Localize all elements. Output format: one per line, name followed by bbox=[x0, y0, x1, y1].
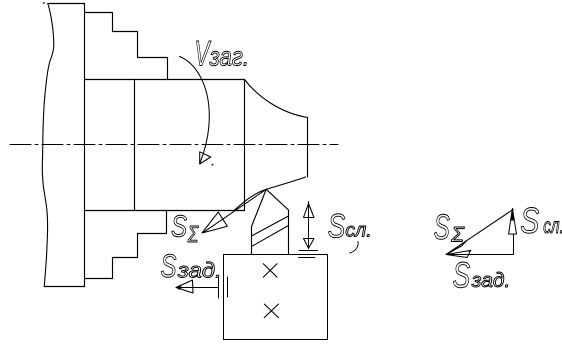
Szad arrowhead bbox=[176, 280, 193, 293]
Ssum arrow shaft bbox=[204, 189, 267, 232]
tool post X mark 2 bbox=[264, 304, 278, 318]
chuck break-line start dot bbox=[43, 2, 45, 4]
triangle Ssl arrowhead filled tip bbox=[511, 209, 515, 221]
vector triangle hypotenuse (Ssum vector) bbox=[446, 209, 513, 254]
workpiece shoulder right edge bbox=[244, 80, 246, 211]
cutting tool body bbox=[252, 189, 289, 254]
svg-text:Σ: Σ bbox=[187, 221, 199, 247]
Szad wall line bbox=[218, 276, 220, 298]
rotation arc Vzag bbox=[180, 57, 210, 164]
Szad arrow shaft bbox=[177, 287, 219, 289]
workpiece top edge bbox=[85, 79, 245, 81]
workpiece bottom edge bbox=[85, 210, 245, 212]
Ssl arrowhead down bbox=[304, 239, 315, 249]
Ssl support line lower bbox=[299, 257, 316, 259]
svg-text:сл.: сл. bbox=[543, 215, 562, 238]
svg-text:S: S bbox=[520, 200, 539, 241]
centre line (dash-dot axis) bbox=[10, 144, 338, 146]
svg-text:S: S bbox=[434, 208, 450, 247]
triangle Ssum arrowhead bbox=[446, 240, 467, 254]
workpiece clamp line bbox=[134, 80, 136, 211]
svg-text:зад.: зад. bbox=[471, 270, 511, 292]
vector triangle bottom edge bbox=[446, 254, 514, 256]
Ssum arrowhead bbox=[202, 212, 227, 233]
workpiece bottom taper curve bbox=[234, 177, 306, 211]
svg-text:зад.: зад. bbox=[177, 258, 222, 282]
chuck body top edge bbox=[48, 3, 85, 5]
tool post X mark 1 bbox=[263, 264, 277, 277]
tool post rectangle bbox=[224, 255, 328, 340]
chuck top jaw (stepped) bbox=[85, 13, 168, 80]
rotation arc arrowhead bbox=[200, 152, 211, 164]
Ssl support line upper bbox=[299, 250, 318, 252]
workpiece end face bbox=[307, 118, 309, 178]
Szad inner wall line bbox=[227, 277, 229, 297]
svg-text:Σ: Σ bbox=[450, 224, 465, 247]
label Ssl swash bbox=[350, 242, 358, 254]
chuck body break-line (wavy left edge) bbox=[42, 4, 53, 287]
chuck face line bbox=[84, 4, 86, 287]
Szad arrow tip dot bbox=[177, 285, 181, 289]
chuck body bottom edge bbox=[44, 286, 84, 288]
svg-text:S: S bbox=[328, 207, 346, 245]
workpiece top taper curve bbox=[245, 80, 308, 118]
vector triangle right edge (Ssl vector shaft) bbox=[513, 234, 515, 255]
svg-text:сл.: сл. bbox=[345, 219, 372, 241]
tool hatch line 2 bbox=[252, 226, 289, 247]
triangle Szad arrowhead (left) bbox=[446, 250, 471, 257]
chuck bottom jaw (stepped) bbox=[85, 211, 167, 279]
svg-text:S: S bbox=[161, 248, 177, 284]
triangle Ssl arrowhead outline bbox=[509, 209, 517, 235]
svg-text:S: S bbox=[171, 209, 187, 244]
V arc end period dot bbox=[212, 164, 214, 166]
svg-text:заг.: заг. bbox=[209, 42, 249, 72]
Ssl arrowhead up bbox=[304, 204, 315, 218]
tool hatch line 1 bbox=[252, 216, 289, 236]
Ssl double arrow shaft bbox=[308, 202, 310, 249]
svg-text:S: S bbox=[453, 254, 471, 295]
